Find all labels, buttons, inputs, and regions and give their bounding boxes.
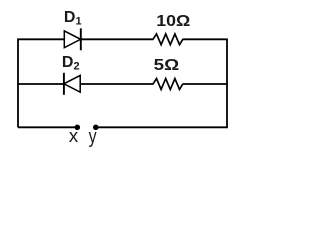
wire mid branch middle — [80, 83, 153, 85]
svg-text:x: x — [69, 125, 79, 146]
wire top branch right — [183, 38, 228, 40]
svg-text:y: y — [89, 126, 97, 148]
resistor R2 5Ω — [153, 79, 183, 90]
resistor R1 10Ω — [153, 34, 183, 45]
diode D2 — [64, 73, 80, 95]
wire mid branch left — [18, 83, 64, 85]
svg-text:10Ω: 10Ω — [156, 13, 190, 30]
wire mid branch right — [183, 83, 228, 85]
diode D1 — [64, 28, 81, 50]
wire bottom right — [96, 126, 228, 128]
svg-text:5Ω: 5Ω — [154, 57, 180, 74]
terminal x — [75, 125, 81, 131]
terminal y — [93, 125, 99, 131]
wire bottom left — [18, 126, 77, 128]
wire top branch middle — [81, 38, 154, 40]
wire left rail — [17, 39, 19, 127]
wire right rail — [226, 39, 228, 127]
svg-text:D1: D1 — [64, 9, 82, 27]
wire top branch left — [17, 38, 64, 40]
svg-text:D2: D2 — [62, 54, 80, 72]
